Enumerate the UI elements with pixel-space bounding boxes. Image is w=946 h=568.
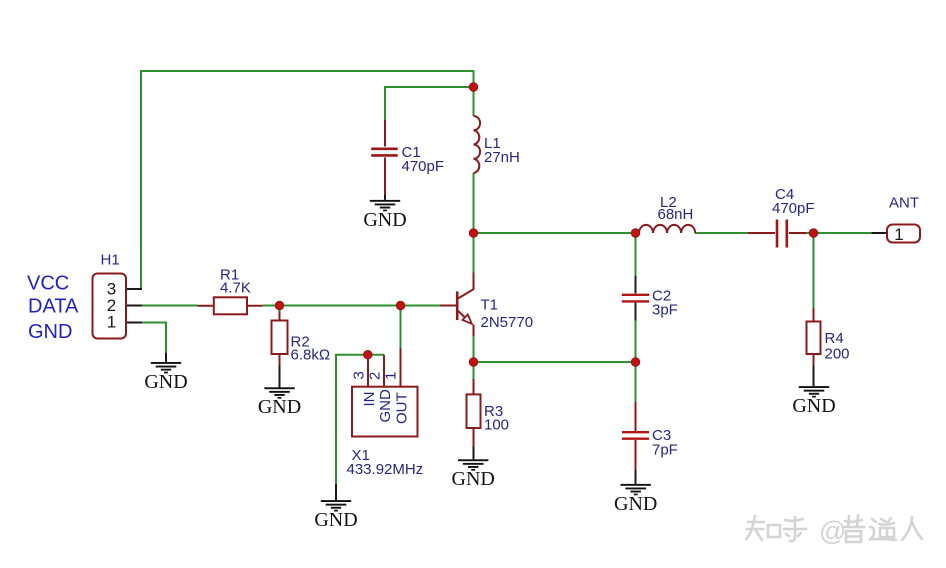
svg-text:1: 1 bbox=[383, 372, 400, 380]
wire L1 bottom to collector bbox=[473, 173, 475, 273]
watermark zhihu bbox=[746, 515, 922, 542]
svg-text:ANT: ANT bbox=[889, 195, 919, 212]
junction C2/C3 node bbox=[631, 358, 639, 366]
wire C1 branch bbox=[385, 87, 474, 120]
svg-text:T1: T1 bbox=[481, 297, 499, 314]
svg-text:H1: H1 bbox=[101, 252, 120, 269]
svg-text:GND: GND bbox=[144, 371, 187, 393]
wire R2 top bbox=[279, 306, 281, 312]
svg-text:27nH: 27nH bbox=[484, 149, 520, 166]
wire pin1 gnd stub black bbox=[165, 353, 167, 362]
svg-text:3: 3 bbox=[351, 371, 368, 379]
inductor L1 bbox=[474, 116, 520, 173]
svg-text:GND: GND bbox=[28, 321, 72, 343]
wire R3 branch bbox=[473, 362, 475, 379]
svg-text:200: 200 bbox=[825, 346, 850, 363]
svg-text:@: @ bbox=[819, 516, 846, 546]
wire C3 branch bbox=[635, 362, 637, 402]
svg-text:R4: R4 bbox=[825, 330, 844, 347]
svg-text:2: 2 bbox=[367, 372, 384, 380]
svg-text:68nH: 68nH bbox=[658, 206, 694, 223]
wire C2 bottom bbox=[635, 321, 637, 363]
svg-text:470pF: 470pF bbox=[772, 200, 815, 217]
svg-text:100: 100 bbox=[484, 417, 509, 434]
header H1 bbox=[93, 252, 127, 339]
svg-text:GND: GND bbox=[377, 389, 394, 423]
resistor R2 bbox=[272, 312, 331, 388]
capacitor C3 bbox=[622, 402, 678, 484]
resistor R1 bbox=[198, 267, 263, 315]
svg-text:1: 1 bbox=[107, 313, 116, 332]
resistor R3 bbox=[467, 379, 510, 459]
ground C1 bbox=[363, 200, 406, 231]
svg-text:GND: GND bbox=[314, 509, 357, 531]
wire H1 pin2 stub bbox=[126, 305, 142, 307]
svg-text:470pF: 470pF bbox=[402, 158, 445, 175]
wire emitter row bbox=[474, 361, 636, 363]
wire L1 top bbox=[473, 87, 475, 116]
svg-text:GND: GND bbox=[258, 396, 301, 418]
ground C3 bbox=[614, 484, 657, 515]
ground R3 bbox=[452, 459, 495, 490]
wire H1 pin3 stub bbox=[126, 288, 142, 290]
svg-text:3pF: 3pF bbox=[652, 302, 678, 319]
svg-text:4.7K: 4.7K bbox=[220, 280, 251, 297]
wire R1 to base bbox=[263, 305, 440, 307]
svg-text:OUT: OUT bbox=[394, 392, 411, 424]
junction X1 ground node bbox=[364, 351, 372, 359]
ground X1 bbox=[314, 500, 357, 531]
wire X1 ground run bbox=[336, 355, 384, 484]
wire L2 to C4 bbox=[695, 232, 748, 234]
ground R4 bbox=[792, 386, 835, 417]
transistor T1 bbox=[440, 273, 533, 337]
svg-text:6.8kΩ: 6.8kΩ bbox=[291, 347, 331, 364]
wire C2 top bbox=[635, 233, 637, 276]
wire emitter to node bbox=[473, 336, 475, 362]
resistor R4 bbox=[807, 308, 850, 386]
wire R4 branch bbox=[813, 233, 815, 308]
svg-text:IN: IN bbox=[361, 392, 378, 407]
svg-text:GND: GND bbox=[452, 468, 495, 490]
wire ANT stub bbox=[872, 232, 888, 234]
junction R1/R2 node bbox=[275, 301, 283, 309]
wire VCC top run bbox=[141, 71, 474, 290]
svg-text:DATA: DATA bbox=[28, 296, 79, 318]
junction base/X1 node bbox=[396, 301, 404, 309]
wire X1 gnd stub black bbox=[335, 484, 337, 500]
junction collector node bbox=[469, 229, 477, 237]
ground R2 bbox=[258, 387, 301, 418]
inductor L2 bbox=[639, 194, 695, 233]
junction C4/R4 node bbox=[809, 229, 817, 237]
resonator X1 bbox=[347, 348, 424, 478]
capacitor C1 bbox=[371, 120, 444, 200]
svg-text:7pF: 7pF bbox=[652, 442, 678, 459]
junction emitter/R3 node bbox=[469, 358, 477, 366]
junction VCC/C1 node bbox=[469, 83, 477, 91]
svg-text:1: 1 bbox=[894, 225, 903, 244]
svg-text:2N5770: 2N5770 bbox=[481, 314, 534, 331]
wire C4 to ANT bbox=[806, 232, 872, 234]
wire pin1 to gnd bbox=[142, 323, 166, 354]
svg-text:433.92MHz: 433.92MHz bbox=[347, 461, 424, 478]
wire DATA to R1 bbox=[142, 305, 198, 307]
capacitor C4 bbox=[748, 186, 815, 248]
svg-text:GND: GND bbox=[614, 493, 657, 515]
wire X1 pin1 drop bbox=[400, 306, 402, 349]
svg-text:GND: GND bbox=[792, 395, 835, 417]
ground pin1 bbox=[144, 362, 187, 393]
connector ANT bbox=[887, 195, 920, 245]
svg-text:GND: GND bbox=[363, 209, 406, 231]
wire H1 pin1 stub bbox=[126, 322, 142, 324]
wire collector row to L2 bbox=[474, 232, 640, 234]
svg-text:VCC: VCC bbox=[27, 273, 69, 295]
junction L2/C2 node bbox=[631, 229, 639, 237]
capacitor C2 bbox=[622, 276, 678, 321]
